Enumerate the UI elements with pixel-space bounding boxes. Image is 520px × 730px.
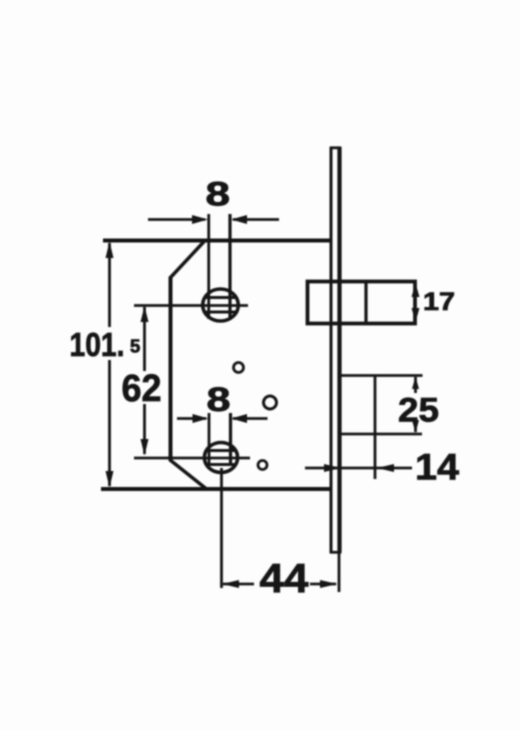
lower dim 8 right arrow: [231, 414, 247, 423]
dim 25 line lower part: [414, 424, 417, 432]
lock body bottom edge: [101, 487, 331, 491]
svg-text:62: 62: [122, 368, 162, 410]
faceplate left line: [330, 147, 333, 553]
lock body bottom-left chamfer: [170, 460, 207, 490]
faceplate right line: [337, 147, 341, 553]
dim 25 down arrow: [412, 420, 419, 433]
upper hub top chord: [204, 296, 238, 299]
dim 25 line upper part: [414, 377, 417, 393]
strike left vertical line: [374, 376, 377, 480]
strike bottom line: [340, 433, 422, 436]
dim 14 right-pointing arrow: [324, 464, 341, 472]
upper hub bottom chord: [203, 311, 237, 314]
dim 44 right arrow: [320, 580, 338, 588]
lower hub horizontal center line: [134, 457, 250, 460]
svg-text:8: 8: [207, 381, 231, 419]
lower hub circle: [204, 443, 237, 473]
lock body top-left chamfer: [171, 241, 206, 278]
dim 62 down arrow: [141, 439, 149, 456]
dim 14 left-pointing arrow: [377, 464, 394, 472]
lower hub top chord: [206, 449, 237, 452]
lower hub right extension line: [229, 413, 232, 464]
lower dim 8 left arrow: [193, 414, 209, 423]
dim 62 up arrow: [141, 306, 149, 322]
dim 14 line: [305, 467, 412, 470]
faceplate bottom cap: [330, 551, 341, 554]
dim 62 vertical line upper part: [143, 307, 146, 371]
latch bolt outline: [308, 282, 416, 324]
svg-text:8: 8: [206, 176, 231, 214]
upper spindle left extension line: [207, 214, 210, 319]
latch bolt divider: [364, 282, 367, 324]
lower dim 8 right line: [233, 417, 268, 420]
upper follower hub circle: [203, 289, 239, 321]
lower hub vertical center line down: [220, 468, 223, 588]
dim 62 vertical line lower part: [143, 404, 146, 454]
svg-text:25: 25: [398, 392, 439, 430]
lock body left edge: [169, 277, 173, 461]
upper spindle right extension line: [228, 214, 231, 319]
top dim 8 right line: [233, 218, 279, 221]
strike top line: [340, 374, 423, 377]
dim 17 down arrow: [412, 308, 420, 322]
svg-text:101.: 101.: [70, 326, 125, 363]
top dim 8 left arrow: [192, 215, 208, 224]
lower dim 8 left line: [177, 417, 206, 420]
dim 44 right extension line: [338, 552, 341, 592]
top dim 8 left line: [148, 218, 205, 221]
lower hub bottom chord: [205, 463, 236, 466]
dim 17 up arrow: [412, 283, 420, 297]
screw hole middle: [264, 396, 277, 409]
dim 101.5 down arrow: [106, 471, 114, 488]
dim 101.5 vertical line upper part: [108, 243, 111, 327]
svg-text:14: 14: [415, 447, 459, 488]
svg-text:44: 44: [260, 555, 309, 601]
faceplate top cap: [330, 146, 341, 149]
screw hole upper: [234, 363, 244, 373]
dim 44 left arrow: [222, 580, 239, 588]
dim 25 up arrow: [412, 377, 419, 390]
dim 44 line left part: [223, 583, 254, 586]
upper hub horizontal center line: [134, 304, 248, 307]
dim 101.5 up arrow: [106, 242, 114, 259]
lower hub left extension line: [208, 413, 211, 464]
svg-text:17: 17: [423, 288, 455, 316]
dim 101.5 vertical line lower part: [108, 360, 111, 486]
top dim 8 right arrow: [231, 215, 247, 224]
screw hole lower: [258, 461, 267, 470]
dim 44 line right part: [310, 583, 336, 586]
svg-text:5: 5: [130, 336, 140, 357]
lock body top edge: [103, 239, 331, 243]
